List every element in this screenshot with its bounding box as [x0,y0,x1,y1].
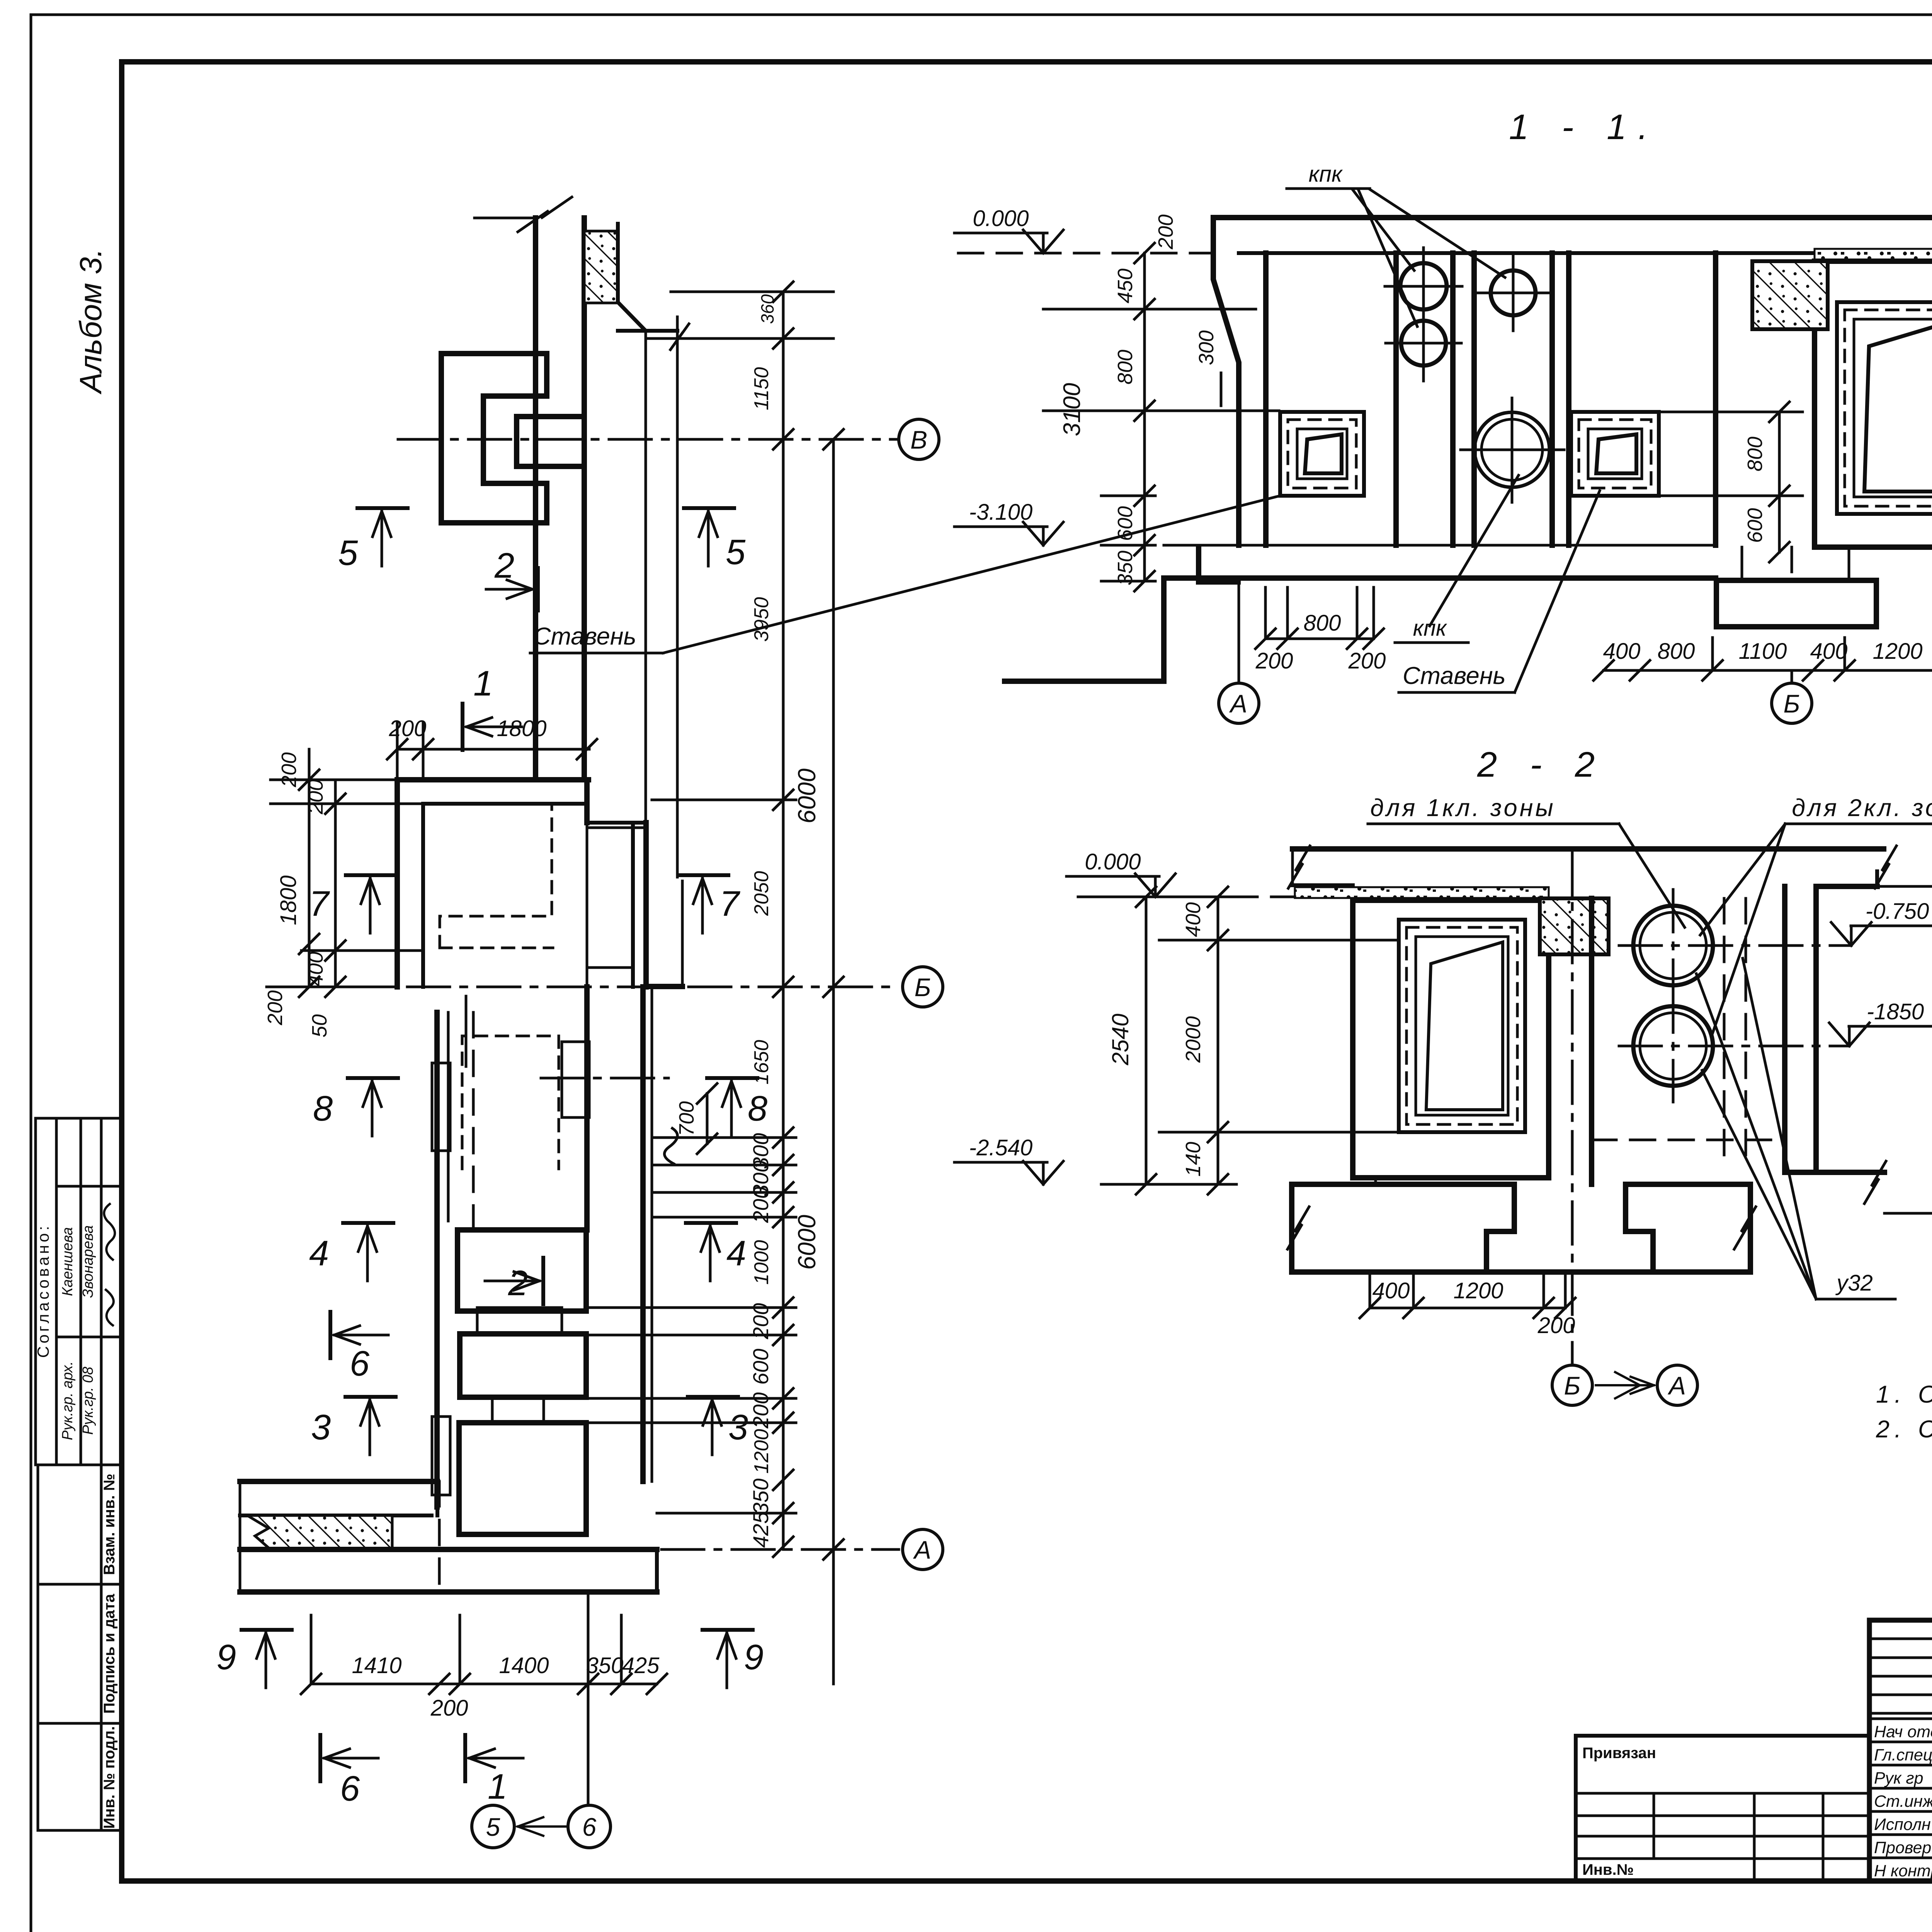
svg-text:425: 425 [748,1511,773,1548]
svg-text:Н контр: Н контр [1874,1862,1932,1880]
svg-text:Альбом 3.: Альбом 3. [73,248,108,395]
svg-text:1400: 1400 [499,1653,549,1678]
svg-text:200: 200 [304,779,327,815]
svg-text:800: 800 [1304,611,1341,636]
svg-text:для 2кл. зоны: для 2кл. зоны [1792,794,1932,821]
svg-text:Инв.№: Инв.№ [1582,1861,1634,1878]
svg-text:Б: Б [1784,689,1800,718]
svg-text:8: 8 [748,1089,767,1128]
svg-text:Б: Б [1564,1371,1581,1400]
svg-text:6: 6 [350,1344,370,1383]
svg-text:3: 3 [728,1408,748,1447]
svg-text:5: 5 [486,1813,500,1841]
svg-text:у32: у32 [1835,1270,1873,1296]
svg-text:1410: 1410 [352,1653,401,1678]
svg-text:7: 7 [309,884,330,923]
svg-text:кпк: кпк [1309,162,1343,187]
svg-text:800: 800 [1114,350,1137,384]
svg-text:1200: 1200 [1872,639,1922,664]
svg-text:0.000: 0.000 [973,206,1029,231]
svg-text:3950: 3950 [750,597,773,642]
svg-text:400: 400 [1603,639,1641,664]
svg-text:А: А [913,1536,931,1564]
svg-text:360: 360 [757,294,777,324]
svg-text:350: 350 [748,1478,773,1514]
svg-text:1200: 1200 [750,1429,773,1474]
svg-text:3: 3 [311,1408,331,1447]
svg-text:9: 9 [216,1638,236,1677]
svg-text:200: 200 [1348,648,1386,673]
svg-text:Рук.гр. 08: Рук.гр. 08 [80,1367,96,1435]
svg-text:7: 7 [719,884,740,923]
svg-text:1650: 1650 [750,1040,773,1085]
svg-text:Рук гр: Рук гр [1874,1769,1923,1787]
svg-text:400: 400 [1372,1278,1410,1303]
svg-text:1800: 1800 [497,716,546,741]
svg-text:-1850: -1850 [1867,999,1924,1024]
svg-text:800: 800 [1658,639,1695,664]
svg-text:2050: 2050 [750,871,773,916]
svg-text:-0.750: -0.750 [1866,899,1929,924]
svg-text:200: 200 [389,716,427,741]
svg-text:Подпись и дата: Подпись и дата [101,1594,118,1714]
svg-text:3100: 3100 [1059,383,1085,436]
svg-text:Ставень: Ставень [1403,662,1506,689]
svg-text:200: 200 [1537,1313,1575,1338]
svg-text:0.000: 0.000 [1085,849,1141,874]
svg-text:400: 400 [1182,902,1205,937]
svg-text:300: 300 [1195,330,1218,365]
svg-text:200: 200 [264,990,287,1026]
svg-text:1: 1 [488,1767,507,1806]
svg-text:400: 400 [304,952,327,986]
svg-text:2: 2 [494,546,514,585]
svg-text:Гл.спец: Гл.спец [1874,1746,1932,1764]
svg-text:5: 5 [726,532,746,572]
svg-text:1200: 1200 [1453,1278,1503,1303]
svg-text:6: 6 [582,1813,597,1841]
svg-text:А: А [1667,1371,1686,1400]
svg-text:6000: 6000 [793,1214,821,1270]
svg-text:Каеншева: Каеншева [60,1227,76,1296]
svg-text:Инв. № подл.: Инв. № подл. [101,1726,118,1828]
svg-text:400: 400 [1810,639,1848,664]
svg-text:50: 50 [308,1014,331,1037]
svg-text:8: 8 [313,1089,333,1128]
svg-text:200: 200 [1255,648,1293,673]
svg-text:Привязан: Привязан [1582,1745,1656,1762]
svg-text:4: 4 [309,1234,329,1273]
svg-text:600: 600 [1743,508,1767,543]
svg-text:700: 700 [675,1101,698,1136]
svg-text:1: 1 [473,664,493,703]
svg-text:2. Сечения 5 - 5 ÷ 9 - 9 с: 2. Сечения 5 - 5 ÷ 9 - 9 см на КЖ-1, л.1… [1876,1416,1932,1443]
svg-text:200: 200 [430,1696,468,1721]
svg-text:1150: 1150 [750,367,773,410]
svg-text:350: 350 [1114,551,1137,585]
svg-text:Б: Б [915,973,931,1002]
svg-text:2000: 2000 [1182,1016,1205,1063]
svg-text:9: 9 [744,1638,764,1677]
svg-text:Звонарева: Звонарева [80,1225,96,1298]
svg-text:2: 2 [508,1264,528,1303]
svg-text:для 1кл. зоны: для 1кл. зоны [1370,794,1555,821]
svg-text:Согласовано:: Согласовано: [34,1223,52,1358]
svg-text:800: 800 [1743,437,1767,471]
svg-text:425: 425 [622,1653,660,1678]
svg-text:6000: 6000 [793,768,821,823]
svg-text:-2.540: -2.540 [969,1135,1032,1160]
svg-text:6: 6 [340,1769,360,1808]
svg-text:1. Основные примечания см: 1. Основные примечания см на КЖ-1, л.11 [1876,1381,1932,1408]
svg-text:Провер.: Провер. [1874,1838,1932,1857]
svg-text:2 - 2: 2 - 2 [1477,745,1606,784]
svg-text:2540: 2540 [1107,1014,1133,1065]
svg-text:Исполн: Исполн [1874,1815,1931,1834]
svg-text:140: 140 [1182,1142,1205,1177]
svg-text:Нач отд: Нач отд [1874,1723,1932,1741]
svg-text:1000: 1000 [750,1240,773,1285]
svg-text:350: 350 [586,1653,624,1678]
svg-text:5: 5 [338,533,358,573]
svg-text:Рук.гр. арх.: Рук.гр. арх. [60,1361,76,1440]
svg-text:Ст.инж.: Ст.инж. [1874,1792,1932,1811]
svg-text:В: В [910,425,927,454]
svg-text:Взам. инв. №: Взам. инв. № [101,1474,118,1575]
svg-text:кпк: кпк [1413,616,1447,641]
svg-text:А: А [1229,689,1247,718]
svg-text:200: 200 [277,752,301,787]
svg-text:1 - 1.: 1 - 1. [1509,107,1660,147]
svg-text:1800: 1800 [276,875,301,925]
svg-text:1100: 1100 [1739,639,1787,664]
svg-text:4: 4 [726,1234,746,1273]
svg-text:600: 600 [748,1349,773,1384]
svg-text:200: 200 [1154,214,1177,250]
svg-text:450: 450 [1114,269,1137,303]
